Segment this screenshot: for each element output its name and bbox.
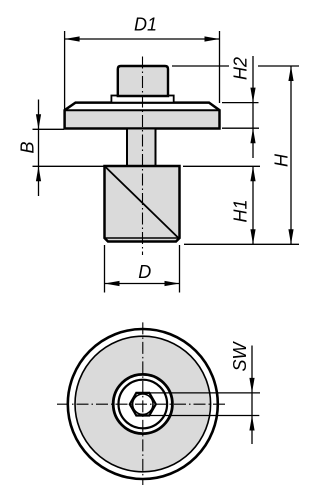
dimension H2: lower arrow (points up to flange bottom)	[250, 128, 255, 143]
dimension B: lower arrow	[36, 166, 41, 181]
flange (wide plate) body	[65, 103, 220, 129]
dimension B: upper arrow	[36, 114, 41, 129]
dimension H1: dimension line	[252, 166, 254, 244]
cylinder (lower body)	[105, 166, 180, 242]
cylinder diagonal (eccentric indication)	[106, 167, 179, 238]
vertical centerline (bottom view)	[142, 322, 144, 485]
dimension SW: dimension line with outside arrows	[251, 346, 253, 445]
dimension H2: dimension line with outside arrows	[252, 56, 254, 158]
boss (top square head)	[118, 66, 168, 96]
collar (washer step under boss)	[111, 96, 173, 103]
dimension B: dimension line with outside arrows	[38, 100, 40, 197]
stem (shaft between flange and cylinder)	[127, 129, 156, 167]
dimension D: arrow left	[105, 281, 120, 286]
svg-text:D1: D1	[134, 15, 157, 35]
dimension B: extension upper (flange bottom, left)	[33, 128, 65, 130]
dimension SW: lower arrow	[249, 416, 254, 431]
dimension D: extension line left	[104, 245, 106, 293]
dimension D1: extension line left	[64, 31, 66, 110]
dimension SW: extension line top	[149, 392, 260, 394]
svg-text:H: H	[272, 153, 292, 167]
outer circle (flange OD)	[68, 329, 218, 479]
flange top extension line (right)	[222, 102, 259, 104]
dimension H: dimension line	[290, 66, 292, 244]
dimension D: dimension line	[105, 283, 180, 285]
dimension H: bottom arrow	[288, 229, 293, 244]
svg-text:SW: SW	[230, 340, 250, 371]
svg-text:H2: H2	[231, 57, 251, 80]
cylinder top extension line (right, for H1)	[183, 165, 260, 167]
dimension H: top arrow	[288, 66, 293, 81]
dimension H1: top arrow	[250, 166, 255, 181]
dimension D: arrow right	[165, 281, 180, 286]
svg-text:H1: H1	[231, 199, 251, 222]
horizontal centerline (bottom view)	[57, 403, 225, 405]
boss top extension line, right segment (for H2 and H)	[258, 65, 299, 67]
cylinder bottom extension line (right, for H1 and H)	[184, 243, 299, 245]
counterbore chamfer circle	[119, 380, 168, 429]
socket pilot circle	[133, 394, 153, 414]
dimension D: extension line right	[179, 245, 181, 293]
dimension D1: extension line right	[219, 31, 221, 103]
dimension SW: upper arrow	[249, 378, 254, 393]
cylinder bottom chamfer line	[105, 237, 180, 239]
dimension D1: dimension line	[65, 38, 220, 40]
dimension SW: extension line bottom	[149, 415, 259, 417]
dimension D1: arrow left	[65, 36, 80, 41]
dimension D1: arrow right	[205, 36, 220, 41]
chamfer circle (flange face edge)	[75, 336, 211, 472]
dimension B: extension lower (cylinder top, left)	[33, 165, 105, 167]
svg-text:B: B	[18, 141, 38, 153]
dimension H1: bottom arrow	[250, 229, 255, 244]
dimension H2: upper arrow (points down to flange top)	[250, 88, 255, 103]
boss top extension line, left segment (for H2 and H)	[172, 65, 229, 67]
flange chamfer edge line	[65, 109, 220, 111]
svg-text:D: D	[138, 262, 151, 282]
counterbore circle	[113, 374, 172, 433]
centerline (vertical axis of elevation)	[142, 57, 144, 256]
hex socket	[130, 393, 156, 416]
flange bottom extension line (right)	[222, 127, 259, 129]
